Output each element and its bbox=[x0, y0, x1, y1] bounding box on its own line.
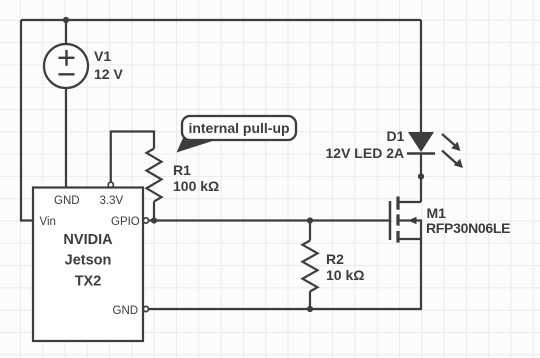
NVIDIA Jetson TX2 box U1 bbox=[33, 188, 143, 342]
wire R1 bottom to GPIO rail bbox=[153, 202, 155, 221]
node junction LED cathode / drain bbox=[418, 173, 424, 179]
M1 body arrow bbox=[408, 217, 417, 225]
label NVIDIA Jetson TX2 bbox=[63, 232, 113, 290]
svg-text:R1: R1 bbox=[173, 162, 191, 178]
label V1 12 V bbox=[94, 48, 123, 82]
svg-text:R2: R2 bbox=[326, 251, 344, 267]
svg-text:100 kΩ: 100 kΩ bbox=[173, 178, 219, 194]
svg-text:Vin: Vin bbox=[40, 216, 56, 228]
LED D1 bbox=[407, 132, 435, 154]
node junction R1 / GPIO rail bbox=[151, 217, 157, 223]
svg-text:M1: M1 bbox=[427, 205, 447, 221]
svg-text:10 kΩ: 10 kΩ bbox=[326, 267, 364, 283]
wire GPIO rail from GPIO pin to MOSFET gate bbox=[149, 219, 391, 221]
svg-text:D1: D1 bbox=[387, 128, 405, 144]
label D1 12V LED 2A bbox=[326, 128, 405, 161]
node junction R2 top / GPIO rail bbox=[307, 217, 313, 223]
node junction R2 bottom / ground rail bbox=[307, 306, 313, 312]
pin 3.3V terminal circle bbox=[108, 182, 113, 187]
wire V1 bottom lead to GND pin of TX2 bbox=[65, 88, 67, 188]
resistor R2 bbox=[303, 241, 318, 292]
wire bottom rail from GND pin to MOSFET source bbox=[149, 239, 422, 309]
transistor M1 (N-MOSFET) bbox=[390, 197, 421, 243]
wire LED cathode down to MOSFET drain bbox=[420, 154, 422, 203]
label R1 100 kΩ bbox=[173, 162, 219, 194]
wire from 3.3V pin up and over to R1 top bbox=[111, 132, 154, 183]
wire top rail from V1+ to LED anode bbox=[21, 19, 421, 21]
wire R2 bottom lead bbox=[309, 292, 311, 310]
label R2 10 kΩ bbox=[326, 251, 364, 283]
svg-text:GND: GND bbox=[113, 305, 139, 317]
svg-text:GPIO: GPIO bbox=[111, 216, 140, 228]
wire from Vin pin up the left side to the top-left corner bbox=[21, 20, 33, 221]
LED light arrow 2 bbox=[442, 151, 463, 169]
wire right side down from top rail to LED bbox=[420, 20, 422, 132]
resistor R1 bbox=[147, 149, 162, 202]
LED light arrow 1 bbox=[442, 134, 461, 151]
svg-text:TX2: TX2 bbox=[75, 274, 102, 290]
callout: internal pull-up bbox=[177, 116, 297, 153]
pin GPIO terminal circle bbox=[143, 218, 148, 223]
node junction top rail / V1 bbox=[63, 17, 69, 23]
pin GND terminal circle bbox=[143, 306, 148, 311]
svg-text:RFP30N06LE: RFP30N06LE bbox=[426, 220, 510, 236]
svg-text:internal pull-up: internal pull-up bbox=[188, 120, 289, 136]
svg-text:Jetson: Jetson bbox=[65, 253, 112, 269]
voltage source V1 bbox=[44, 44, 88, 88]
svg-text:12V LED 2A: 12V LED 2A bbox=[326, 145, 405, 161]
label M1 RFP30N06LE bbox=[426, 205, 510, 236]
svg-text:GND: GND bbox=[54, 195, 80, 207]
wire V1 top lead bbox=[65, 20, 67, 44]
svg-text:V1: V1 bbox=[94, 48, 111, 64]
wire R2 top lead bbox=[309, 221, 311, 241]
svg-text:3.3V: 3.3V bbox=[100, 195, 124, 207]
svg-text:NVIDIA: NVIDIA bbox=[63, 232, 113, 248]
svg-text:12 V: 12 V bbox=[94, 66, 123, 82]
